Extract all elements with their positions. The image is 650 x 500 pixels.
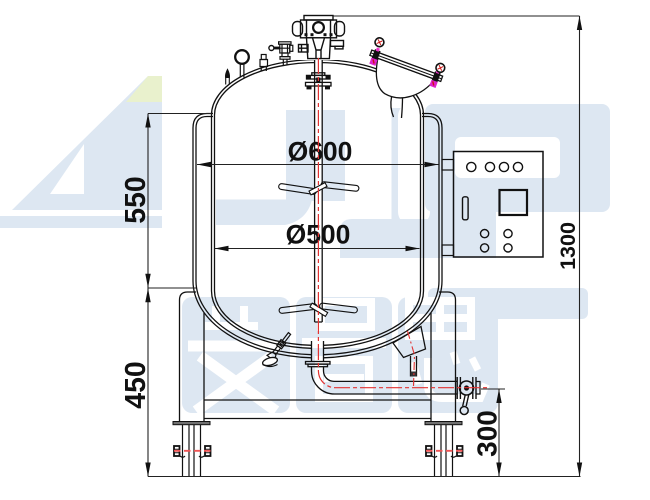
jacket top right corner [422,114,442,129]
ext line jacket top [148,113,212,115]
ext line valve [481,388,505,390]
panel display [500,190,528,215]
chute centerline [408,331,415,386]
shaft centerline [318,58,490,388]
agitator shaft white mask [315,55,323,322]
dim line D500 [215,248,420,250]
motor column [307,38,331,59]
agitator shaft outline [315,55,323,322]
ext line top (motor to 1300) [333,15,580,17]
fitting: ball valve [269,42,293,65]
watermark tile 3 (si) [398,297,498,413]
manway neck [391,97,403,118]
WATERMARK [0,76,610,413]
watermark letter U right bar [392,108,459,220]
side chute outlet [393,327,426,377]
vessel dish bottom right arc outer [324,291,424,348]
vessel dome outer [212,59,424,115]
dim line 550-450 [147,114,149,477]
shaft clamp flange [306,73,332,90]
manway lid [370,50,443,81]
foot bolt left [174,446,211,457]
panel bracket bottom [442,245,454,256]
watermark tile 1 (ai) [182,297,290,413]
manway wheel left [374,37,385,48]
CONTROL PANEL [442,152,543,258]
MOTOR ASSEMBLY [292,14,344,60]
jacket bottom left arcs [193,281,312,358]
dim line 1300 [579,16,581,477]
motor top plate [304,16,333,21]
impeller lower [279,303,358,317]
motor body [301,20,337,38]
thermometer probe [267,331,293,361]
base brace [204,400,431,419]
foot bolt centerline right [426,450,463,452]
watermark letter S ring [425,104,610,212]
vessel wall left [212,115,215,291]
jacket top left corner [193,114,213,129]
svg-text:450: 450 [120,361,152,409]
watermark letter U bottom band [340,219,470,258]
LEGS AND BASE [180,292,456,422]
ext line jacket bottom [148,287,196,289]
manway clamp right [431,71,440,83]
leg left [180,292,205,422]
watermark letter S bottom band [428,288,588,319]
svg-text:1300: 1300 [556,222,580,270]
manway dome [367,58,435,108]
motor circle [313,22,324,33]
foot tube left [183,425,201,477]
motor ears [293,22,303,37]
panel lamp 4 [513,162,522,171]
panel bracket top [442,160,454,171]
dim line 300 [498,389,500,477]
watermark letter A green accent [126,76,162,102]
thermometer paddle [262,356,279,367]
fitting: vent spike [226,70,230,85]
foot tube right [435,425,453,477]
RED CENTERLINES [174,58,490,451]
bottom valve [457,377,480,415]
panel lamp 3 [499,162,508,171]
manway clamp left [371,49,380,61]
motor side arm [331,41,344,47]
vessel dome inner [215,63,421,116]
dim line D600 [197,164,439,166]
foot bolt centerline left [174,450,211,452]
watermark letter U bar [286,110,345,201]
foot bolt right [426,446,463,457]
foot plate left [173,422,210,425]
vessel dish bottom left arc inner [215,291,312,345]
panel lamp 1 [467,162,476,171]
vessel dish bottom right arc inner [324,291,421,345]
DIMENSIONS [148,16,581,477]
outlet pipe vertical [312,341,324,362]
jacket bottom right arcs [324,281,443,358]
TANK BODY [193,59,442,357]
motor left port [299,45,309,53]
fitting: pressure gauge [235,50,249,77]
dimension texts [120,136,580,457]
panel slot [463,197,469,220]
panel box [454,152,544,258]
vessel wall right [421,115,424,291]
valve handle [463,395,469,406]
manway wheel red crosses [370,39,444,86]
manway wheel right [435,62,446,73]
outlet flange [306,362,331,365]
foot plate right [425,422,462,425]
impeller upper [278,182,359,195]
outlet elbow [312,367,457,394]
svg-text:Ø600: Ø600 [288,136,353,166]
watermark letter A [12,76,162,210]
ext line ground [148,476,581,478]
svg-text:300: 300 [472,410,503,457]
panel lamp 2 [485,162,494,171]
leg right [431,292,456,422]
watermark tile 2 (lu) [296,297,392,413]
svg-text:550: 550 [120,176,152,224]
BOTTOM OUTLET PIPE [306,341,457,394]
watermark letter U left band [216,200,312,226]
jacket wall left [193,128,196,281]
fitting: capped nozzle [260,55,268,72]
panel buttons [481,230,489,238]
watermark letter S connector [440,212,496,258]
jacket wall right [439,128,442,281]
vessel dish bottom left arc outer [212,291,312,348]
